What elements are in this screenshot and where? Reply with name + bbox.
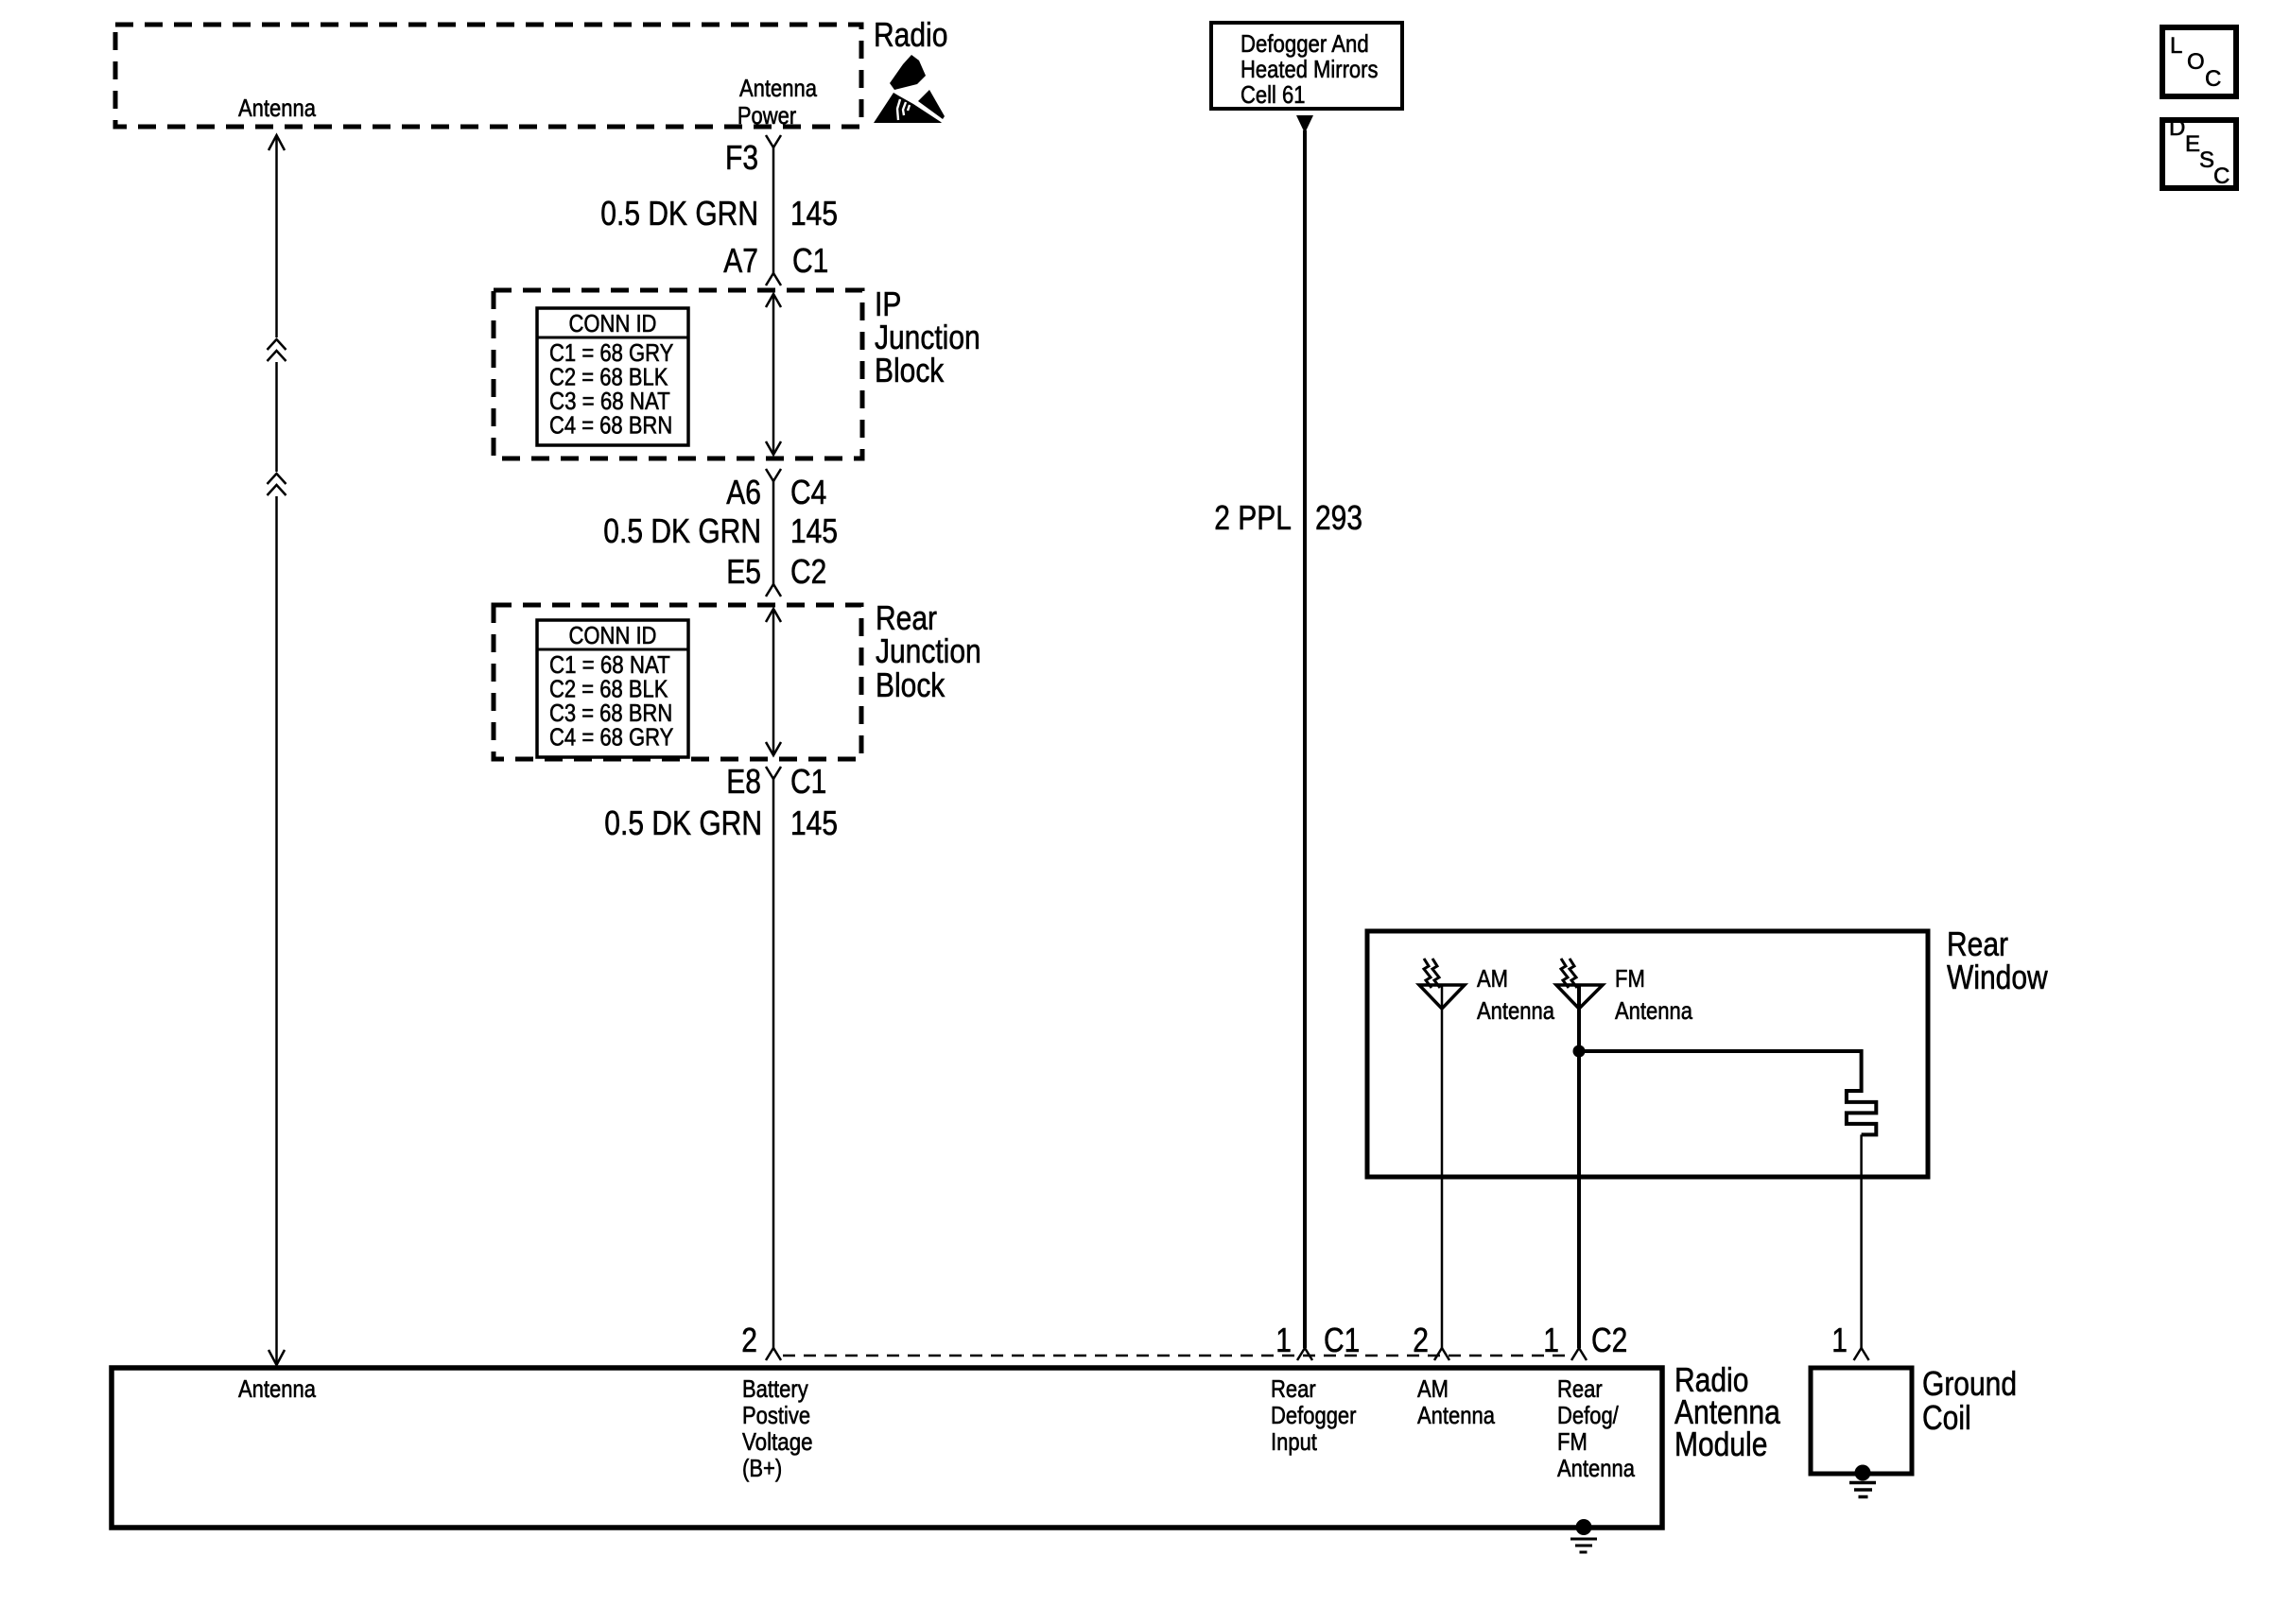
svg-text:CONN ID: CONN ID bbox=[569, 309, 657, 337]
svg-text:Rear: Rear bbox=[1271, 1374, 1316, 1403]
svg-text:Window: Window bbox=[1947, 958, 2049, 996]
svg-text:E8: E8 bbox=[726, 762, 761, 801]
svg-text:Battery: Battery bbox=[742, 1374, 808, 1403]
svg-text:Junction: Junction bbox=[876, 631, 981, 670]
svg-text:D: D bbox=[2169, 115, 2185, 141]
svg-text:1: 1 bbox=[1543, 1321, 1559, 1359]
svg-text:Defog/: Defog/ bbox=[1557, 1401, 1619, 1429]
connector fork pin 1 (ground coil) bbox=[1854, 1348, 1869, 1360]
connector fork pin 2 (module) bbox=[766, 1348, 781, 1360]
svg-text:C4: C4 bbox=[790, 473, 826, 511]
svg-text:(B+): (B+) bbox=[742, 1454, 782, 1482]
svg-text:Input: Input bbox=[1271, 1427, 1318, 1456]
svg-text:Antenna: Antenna bbox=[1557, 1454, 1635, 1482]
svg-text:Cell 61: Cell 61 bbox=[1241, 80, 1306, 109]
ground symbol (ground coil) bbox=[1855, 1465, 1871, 1481]
svg-text:C1: C1 bbox=[1324, 1321, 1360, 1359]
svg-text:Defogger And: Defogger And bbox=[1241, 29, 1369, 58]
svg-text:C1: C1 bbox=[792, 241, 828, 280]
IP Junction Block dashed box bbox=[494, 290, 862, 458]
connector fork pin 1/C1 (module) bbox=[1297, 1348, 1312, 1360]
svg-text:C: C bbox=[2213, 164, 2230, 189]
junction dot on FM wire bbox=[1573, 1045, 1586, 1058]
connector fork pin 2 AM (module) bbox=[1434, 1348, 1449, 1360]
svg-text:2: 2 bbox=[1413, 1321, 1429, 1359]
CONN ID table (IP junction block) bbox=[537, 308, 688, 445]
dashed connector line (module header) bbox=[783, 1355, 1573, 1357]
svg-text:Radio: Radio bbox=[874, 15, 947, 54]
svg-text:Postive: Postive bbox=[742, 1401, 810, 1429]
wire 0.5 DK GRN 145 (to radio antenna module) bbox=[772, 779, 775, 1348]
connector fork A7/C1 bbox=[766, 273, 781, 285]
svg-text:CONN ID: CONN ID bbox=[569, 621, 657, 649]
connector fork F3 (radio) bbox=[766, 135, 781, 147]
svg-text:145: 145 bbox=[790, 194, 838, 233]
svg-text:Antenna: Antenna bbox=[1477, 996, 1554, 1025]
svg-text:FM: FM bbox=[1557, 1427, 1588, 1456]
svg-text:C1: C1 bbox=[790, 762, 826, 801]
svg-text:E5: E5 bbox=[726, 552, 761, 591]
connector fork E8/C1 bbox=[766, 767, 781, 779]
svg-text:Coil: Coil bbox=[1922, 1398, 1971, 1437]
svg-text:Antenna: Antenna bbox=[1615, 996, 1692, 1025]
wire 0.5 DK GRN 145 (radio to IP junction block) bbox=[772, 147, 775, 273]
connector fork A6/C4 bbox=[766, 469, 781, 481]
wire through IP junction block bbox=[772, 294, 775, 455]
wire AM antenna to module bbox=[1441, 986, 1444, 1348]
FM antenna symbol bbox=[1556, 985, 1603, 1009]
svg-text:0.5 DK GRN: 0.5 DK GRN bbox=[600, 194, 758, 233]
svg-text:Antenna: Antenna bbox=[739, 74, 817, 102]
LOC reference box bbox=[2162, 27, 2236, 96]
svg-text:Voltage: Voltage bbox=[742, 1427, 813, 1456]
svg-text:C2: C2 bbox=[1591, 1321, 1627, 1359]
svg-text:Heated Mirrors: Heated Mirrors bbox=[1241, 55, 1379, 83]
svg-text:Defogger: Defogger bbox=[1271, 1401, 1357, 1429]
svg-text:C2: C2 bbox=[790, 552, 826, 591]
svg-text:O: O bbox=[2187, 49, 2205, 75]
svg-text:C4 = 68 BRN: C4 = 68 BRN bbox=[549, 411, 672, 440]
svg-text:0.5 DK GRN: 0.5 DK GRN bbox=[604, 803, 762, 842]
svg-text:AM: AM bbox=[1417, 1374, 1449, 1403]
svg-text:C: C bbox=[2205, 66, 2221, 92]
connector fork E5/C2 bbox=[766, 584, 781, 596]
wire to defogger grid element bbox=[1579, 1049, 1862, 1053]
arrow from defogger cell bbox=[1296, 115, 1313, 133]
svg-text:L: L bbox=[2170, 33, 2182, 59]
svg-text:A6: A6 bbox=[726, 473, 761, 511]
svg-text:Antenna: Antenna bbox=[1417, 1401, 1495, 1429]
svg-text:145: 145 bbox=[790, 511, 838, 550]
DESC reference box bbox=[2162, 120, 2236, 188]
Rear Junction Block dashed box bbox=[494, 605, 861, 759]
wire FM antenna / rear defog to module bbox=[1577, 986, 1581, 1348]
svg-text:AM: AM bbox=[1477, 964, 1508, 993]
svg-text:Block: Block bbox=[875, 351, 945, 389]
svg-text:Power: Power bbox=[737, 101, 797, 130]
CONN ID table (rear junction block) bbox=[537, 620, 688, 757]
svg-text:C4 = 68 GRY: C4 = 68 GRY bbox=[549, 723, 673, 752]
svg-text:E: E bbox=[2185, 131, 2200, 157]
svg-text:2 PPL: 2 PPL bbox=[1214, 498, 1292, 537]
svg-text:Module: Module bbox=[1674, 1425, 1767, 1463]
svg-text:1: 1 bbox=[1275, 1321, 1292, 1359]
break symbol bbox=[268, 474, 286, 484]
wire grid element to ground coil bbox=[1860, 1134, 1863, 1348]
ESD sensitive device icon bbox=[874, 55, 945, 123]
svg-text:Block: Block bbox=[876, 665, 946, 704]
defogger grid element (meander) bbox=[1847, 1049, 1876, 1134]
wire 0.5 DK GRN 145 (IP to rear junction block) bbox=[772, 481, 775, 584]
wire 2 PPL 293 bbox=[1303, 130, 1307, 1348]
svg-text:Ground: Ground bbox=[1922, 1364, 2017, 1403]
svg-text:A7: A7 bbox=[723, 241, 758, 280]
svg-text:293: 293 bbox=[1315, 498, 1362, 537]
wire through rear junction block bbox=[772, 609, 775, 755]
Radio Antenna Module box bbox=[112, 1368, 1662, 1528]
svg-text:S: S bbox=[2199, 147, 2214, 173]
svg-text:Rear: Rear bbox=[1557, 1374, 1603, 1403]
svg-text:F3: F3 bbox=[725, 138, 758, 177]
svg-text:FM: FM bbox=[1615, 964, 1645, 993]
break symbol bbox=[268, 339, 286, 350]
connector fork pin 1/C2 (module) bbox=[1571, 1348, 1587, 1360]
svg-text:145: 145 bbox=[790, 803, 838, 842]
svg-text:Antenna: Antenna bbox=[238, 94, 316, 122]
svg-text:1: 1 bbox=[1831, 1321, 1848, 1359]
svg-text:2: 2 bbox=[741, 1321, 757, 1359]
Defogger And Heated Mirrors Cell 61 box bbox=[1211, 23, 1402, 109]
wire: antenna lead-in (left) bbox=[269, 135, 285, 150]
ground symbol (module) bbox=[1576, 1519, 1592, 1535]
Ground Coil box bbox=[1811, 1368, 1912, 1474]
AM antenna symbol bbox=[1419, 985, 1465, 1009]
svg-text:Antenna: Antenna bbox=[238, 1374, 316, 1403]
Rear Window box bbox=[1367, 931, 1928, 1177]
radio component dashed box bbox=[115, 25, 861, 127]
svg-text:0.5 DK GRN: 0.5 DK GRN bbox=[603, 511, 761, 550]
